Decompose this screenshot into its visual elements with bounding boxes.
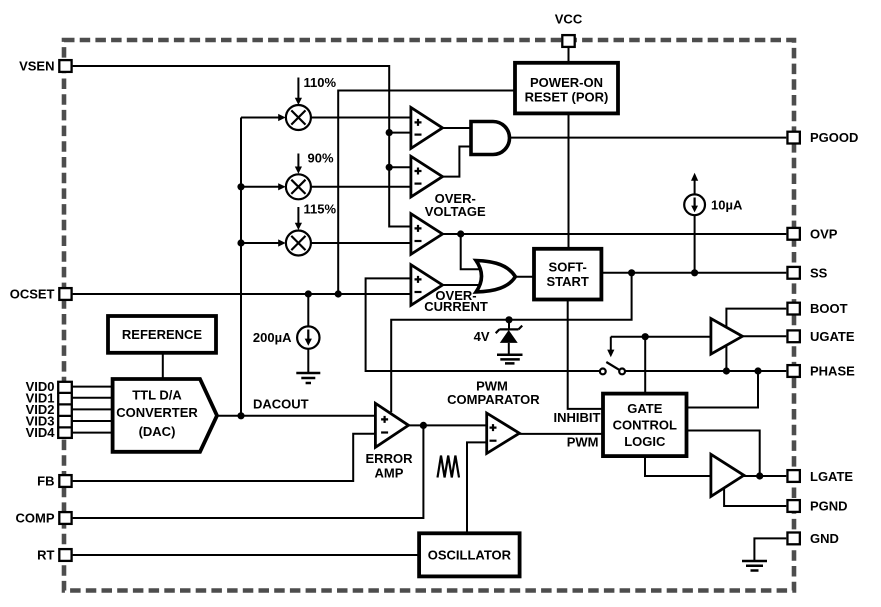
wire OR gate output to SOFT-START bbox=[515, 276, 534, 278]
wire VSEN to comparators bbox=[73, 66, 411, 227]
junction OVP line to OR gate bbox=[457, 230, 464, 237]
wire comp3 output to OVP bbox=[443, 233, 787, 235]
wire gate control logic to LGATE feedback bbox=[687, 431, 760, 477]
wire 110% arrow into multiplier top bbox=[297, 78, 299, 99]
wire RT pin to oscillator bbox=[73, 554, 420, 556]
buffer UGATE driver bbox=[711, 319, 743, 355]
svg-text:PWM: PWM bbox=[567, 435, 599, 450]
svg-text:RESET (POR): RESET (POR) bbox=[525, 90, 609, 105]
svg-text:(DAC): (DAC) bbox=[139, 424, 176, 439]
wire VSEN branch to comp2 plus bbox=[389, 166, 411, 168]
buffer LGATE driver bbox=[711, 454, 744, 496]
svg-text:SOFT-: SOFT- bbox=[549, 260, 587, 275]
block TTL D/A CONVERTER (DAC) bbox=[113, 379, 217, 452]
svg-text:FB: FB bbox=[37, 474, 54, 489]
svg-text:CURRENT: CURRENT bbox=[424, 299, 488, 314]
svg-text:ERROR: ERROR bbox=[366, 451, 414, 466]
block REFERENCE bbox=[108, 316, 216, 353]
pin SS bbox=[787, 267, 799, 279]
svg-text:90%: 90% bbox=[308, 151, 334, 166]
ground near GND pin bbox=[742, 561, 767, 571]
wire UGATE driver to PHASE line bbox=[725, 344, 727, 371]
junction on VSEN drop at comp2 bbox=[386, 164, 393, 171]
wire error amp output to PWM comparator plus bbox=[409, 424, 487, 426]
wire VID0 to DAC bbox=[73, 386, 113, 388]
pin OCSET bbox=[59, 288, 71, 300]
junction PHASE feedback bbox=[754, 367, 761, 374]
wire POR to SOFT-START bbox=[568, 113, 570, 248]
pin LGATE bbox=[787, 470, 799, 482]
block SOFT-START bbox=[534, 249, 601, 300]
svg-text:COMPARATOR: COMPARATOR bbox=[447, 392, 540, 407]
wire arrow into multiplier 115% bbox=[241, 242, 279, 244]
wire UGATE driver output to UGATE pin bbox=[742, 335, 786, 337]
junction OCSET and POR feed bbox=[335, 290, 342, 297]
svg-text:VSEN: VSEN bbox=[19, 59, 54, 74]
junction UGATE drive to gate control logic bbox=[642, 333, 649, 340]
svg-text:INHIBIT: INHIBIT bbox=[554, 410, 601, 425]
svg-text:OCSET: OCSET bbox=[10, 287, 55, 302]
wire SS clamp to zener and error amp bbox=[391, 273, 631, 412]
pin COMP bbox=[59, 512, 71, 524]
pins VID0-VID4 bbox=[57, 382, 72, 438]
svg-text:OVP: OVP bbox=[810, 226, 838, 241]
pin BOOT bbox=[787, 303, 799, 315]
pin PHASE bbox=[787, 365, 799, 377]
svg-text:VID4: VID4 bbox=[26, 425, 56, 440]
svg-text:GATE: GATE bbox=[627, 401, 662, 416]
wire SOFT-START output to SS pin bbox=[601, 272, 786, 274]
wire 10uA source arrow up bbox=[694, 180, 696, 195]
svg-text:4V: 4V bbox=[474, 329, 490, 344]
pin PGND bbox=[787, 500, 799, 512]
wire AND gate output to PGOOD bbox=[510, 137, 787, 139]
arrow onto switch bbox=[610, 337, 612, 350]
wire VID1 to DAC bbox=[73, 397, 113, 399]
pin VCC bbox=[562, 35, 574, 47]
wire DACOUT feed to multipliers bbox=[240, 118, 242, 416]
svg-text:UGATE: UGATE bbox=[810, 329, 855, 344]
wire 10uA source to SS line bbox=[694, 215, 696, 273]
wire gate control logic to PHASE feedback bbox=[687, 371, 759, 408]
current source 10uA bbox=[684, 194, 705, 215]
comparator U3 over-voltage bbox=[411, 214, 443, 255]
wire FB pin to error amp minus bbox=[73, 434, 376, 481]
wire LGATE driver to PGND pin bbox=[724, 489, 786, 506]
wire comp2 output to AND gate bbox=[443, 147, 472, 177]
svg-text:LGATE: LGATE bbox=[810, 469, 853, 484]
wire switch arrow rail to UGATE driver input bbox=[611, 336, 711, 338]
wire comp1 output to AND gate bbox=[443, 127, 472, 129]
wire PHASE line left segment to over-current comparator plus bbox=[366, 278, 600, 371]
pin UGATE bbox=[787, 330, 799, 342]
ground below 200uA source bbox=[296, 373, 320, 383]
svg-text:GND: GND bbox=[810, 531, 839, 546]
junction SS line clamp branch bbox=[628, 269, 635, 276]
svg-text:VCC: VCC bbox=[555, 12, 583, 27]
wire UGATE driver to BOOT pin bbox=[726, 309, 786, 329]
svg-text:CONVERTER: CONVERTER bbox=[116, 405, 198, 420]
wire 115% arrow into multiplier top bbox=[297, 207, 299, 224]
wire REFERENCE to DAC bbox=[162, 353, 164, 379]
block POWER-ON RESET (POR) bbox=[515, 63, 618, 114]
wire VID3 to DAC bbox=[73, 420, 113, 422]
op-amp error amplifier bbox=[375, 403, 408, 447]
ground below zener bbox=[497, 355, 523, 364]
comparator U4 over-current bbox=[411, 265, 443, 306]
wire DACOUT to error amp plus bbox=[217, 415, 375, 417]
multiplier 110% bbox=[286, 105, 311, 130]
svg-text:AMP: AMP bbox=[375, 466, 404, 481]
block GATE CONTROL LOGIC bbox=[603, 394, 687, 457]
wire PWM comparator output to gate control logic bbox=[519, 433, 603, 435]
junction mult feed at DACOUT bbox=[237, 412, 244, 419]
wire multiplier3 output to comp3 minus bbox=[311, 242, 411, 244]
wire multiplier1 output to comp1 plus bbox=[311, 117, 411, 119]
wire VID4 to DAC bbox=[73, 432, 113, 434]
svg-text:PGND: PGND bbox=[810, 499, 848, 514]
pin FB bbox=[59, 475, 71, 487]
svg-text:SS: SS bbox=[810, 265, 828, 280]
wire oscillator to PWM comparator minus bbox=[467, 442, 487, 533]
svg-text:OSCILLATOR: OSCILLATOR bbox=[428, 548, 512, 563]
svg-text:10µA: 10µA bbox=[711, 197, 743, 212]
svg-text:TTL D/A: TTL D/A bbox=[132, 388, 182, 403]
multiplier 90% bbox=[286, 174, 311, 199]
wire LGATE driver output to LGATE pin bbox=[744, 475, 786, 477]
wire gate control logic to LGATE driver input bbox=[645, 456, 711, 476]
svg-text:LOGIC: LOGIC bbox=[624, 434, 666, 449]
svg-text:START: START bbox=[547, 274, 589, 289]
wire COMP pin to error amp output bbox=[73, 425, 424, 518]
junction UGATE driver PHASE bbox=[723, 367, 730, 374]
AND gate PGOOD bbox=[471, 122, 510, 155]
pin RT bbox=[59, 549, 71, 561]
svg-text:PGOOD: PGOOD bbox=[810, 130, 858, 145]
junction zener node bbox=[505, 316, 512, 323]
junction error amp output COMP bbox=[420, 422, 427, 429]
comparator PWM bbox=[487, 413, 520, 453]
junction OCSET and 200uA source bbox=[305, 290, 312, 297]
OR gate soft-start trigger bbox=[476, 261, 515, 293]
junction SS line 10uA source bbox=[691, 269, 698, 276]
junction LGATE feedback bbox=[756, 472, 763, 479]
pin OVP bbox=[787, 228, 799, 240]
wire PHASE line right segment to PHASE pin bbox=[625, 370, 786, 372]
wire gate control logic top feed bbox=[644, 337, 646, 394]
pin PGOOD bbox=[787, 132, 799, 144]
svg-text:VOLTAGE: VOLTAGE bbox=[425, 204, 486, 219]
wire arrow into multiplier 90% bbox=[241, 186, 279, 188]
wire OCSET pin to over-current comparator minus bbox=[73, 293, 411, 295]
comparator U2 90% bbox=[411, 156, 443, 197]
switch inhibit bbox=[600, 362, 625, 374]
svg-text:200µA: 200µA bbox=[253, 330, 292, 345]
wire over-current comparator output to OR gate bbox=[443, 284, 485, 286]
comparator U1 110% bbox=[411, 107, 443, 148]
svg-text:115%: 115% bbox=[304, 202, 337, 217]
wire multiplier2 output to comp2 minus bbox=[311, 186, 411, 188]
junction mult feed at 90% bbox=[237, 183, 244, 190]
svg-text:DACOUT: DACOUT bbox=[253, 397, 309, 412]
svg-text:PHASE: PHASE bbox=[810, 364, 855, 379]
wire OVP line down to OR gate top input bbox=[461, 234, 484, 269]
wire 200uA source stems bbox=[307, 294, 309, 373]
wire VSEN branch to comp1 minus bbox=[389, 132, 411, 134]
wire VCC pin to POR bbox=[568, 48, 570, 63]
junction mult feed at 115% bbox=[237, 239, 244, 246]
wire 90% arrow into multiplier top bbox=[297, 154, 299, 168]
svg-text:BOOT: BOOT bbox=[810, 301, 848, 316]
block OSCILLATOR bbox=[419, 533, 519, 576]
pin GND bbox=[787, 533, 799, 545]
wire arrow into multiplier 110% bbox=[241, 117, 279, 119]
junction on VSEN drop at comp1 bbox=[386, 129, 393, 136]
svg-text:110%: 110% bbox=[304, 75, 337, 90]
sawtooth waveform bbox=[438, 456, 460, 478]
IC boundary dashed border bbox=[64, 40, 794, 591]
zener diode 4V bbox=[496, 320, 523, 355]
svg-text:CONTROL: CONTROL bbox=[613, 418, 677, 433]
svg-text:COMP: COMP bbox=[16, 511, 55, 526]
wire OCSET line to POR bbox=[338, 91, 515, 295]
multiplier 115% bbox=[286, 231, 311, 256]
svg-text:POWER-ON: POWER-ON bbox=[530, 75, 603, 90]
current source 200uA bbox=[297, 326, 319, 348]
wire GND pin to ground bbox=[754, 538, 786, 561]
svg-text:RT: RT bbox=[37, 548, 54, 563]
pin VSEN bbox=[59, 60, 71, 72]
wire INHIBIT from SOFT-START to gate control logic bbox=[568, 300, 603, 409]
wire VID2 to DAC bbox=[73, 408, 113, 410]
svg-text:REFERENCE: REFERENCE bbox=[122, 327, 203, 342]
